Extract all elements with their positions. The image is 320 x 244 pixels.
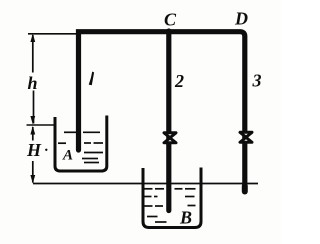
- tube 2: [166, 31, 171, 211]
- vessel B: [143, 168, 201, 228]
- vessel A liquid dashes: [58, 132, 103, 162]
- level tick line: [27, 124, 56, 126]
- dot after H: [45, 149, 47, 151]
- arrowhead H top: [30, 126, 35, 135]
- svg-text:C: C: [164, 10, 177, 30]
- vessel B liquid dashes: [144, 189, 196, 222]
- dimension line H (broken around label): [32, 127, 34, 141]
- valve on tube 2: [164, 133, 176, 143]
- arrowhead H bottom: [30, 175, 35, 184]
- svg-text:D: D: [234, 9, 248, 29]
- label 1: [89, 72, 94, 86]
- arrowhead h bottom: [30, 116, 35, 125]
- tube 3 bottom tip: [242, 186, 248, 192]
- dimension line h (broken around label): [32, 35, 34, 73]
- svg-text:h: h: [28, 73, 38, 93]
- baseline: [33, 183, 258, 185]
- svg-text:2: 2: [174, 71, 184, 91]
- valve on tube 3: [240, 132, 252, 142]
- svg-text:3: 3: [252, 71, 262, 91]
- top reference thin line: [28, 33, 76, 35]
- svg-text:H: H: [26, 140, 42, 160]
- vessel A: [55, 116, 107, 172]
- pipe: tube 1 + top manifold + tube 3: [79, 32, 245, 191]
- svg-text:A: A: [62, 148, 73, 164]
- arrowhead h top: [30, 34, 35, 43]
- svg-text:B: B: [179, 208, 192, 228]
